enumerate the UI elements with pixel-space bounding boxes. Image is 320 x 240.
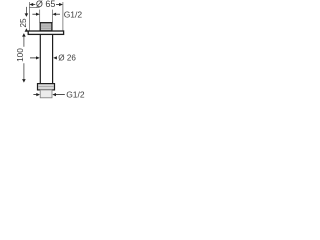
dimension 25 down arrow <box>25 13 29 17</box>
escutcheon flange <box>28 31 63 34</box>
svg-text:25: 25 <box>19 18 28 28</box>
extension line right (G1/2 top) <box>51 10 53 23</box>
thread square (top G1/2 connector) <box>40 23 52 31</box>
G1/2 top right arrow <box>52 13 60 16</box>
G1/2 bottom right arrow <box>52 93 65 96</box>
connector line between extension lines <box>29 7 39 9</box>
G1/2 top left arrow <box>32 13 39 16</box>
dimension 100 down arrow <box>22 79 26 83</box>
dimension 25 line upper <box>25 7 27 14</box>
pipe body <box>40 35 52 84</box>
svg-text:G1/2: G1/2 <box>64 10 83 20</box>
extension line right (Ø65) <box>62 2 64 31</box>
svg-text:100: 100 <box>15 48 25 62</box>
dimension 100 up arrow <box>22 33 26 37</box>
dimension 25 up arrow <box>25 28 29 32</box>
dimension Ø65 right arrow <box>56 3 63 6</box>
dimension Ø26 right arrow <box>53 56 57 59</box>
union nut <box>38 84 55 90</box>
dimension 100 line lower <box>23 63 25 81</box>
extension line left (Ø65) <box>28 2 30 31</box>
dimension Ø26 left arrow <box>30 56 40 59</box>
extension line left (G1/2 top) <box>39 10 41 23</box>
dimension Ø65 left arrow <box>29 3 35 6</box>
svg-text:G1/2: G1/2 <box>66 89 85 99</box>
bottom thread G1/2 <box>40 90 52 98</box>
svg-text:Ø 26: Ø 26 <box>58 54 76 63</box>
dimension 100 line upper <box>23 35 25 47</box>
G1/2 bottom left arrow <box>33 93 40 96</box>
